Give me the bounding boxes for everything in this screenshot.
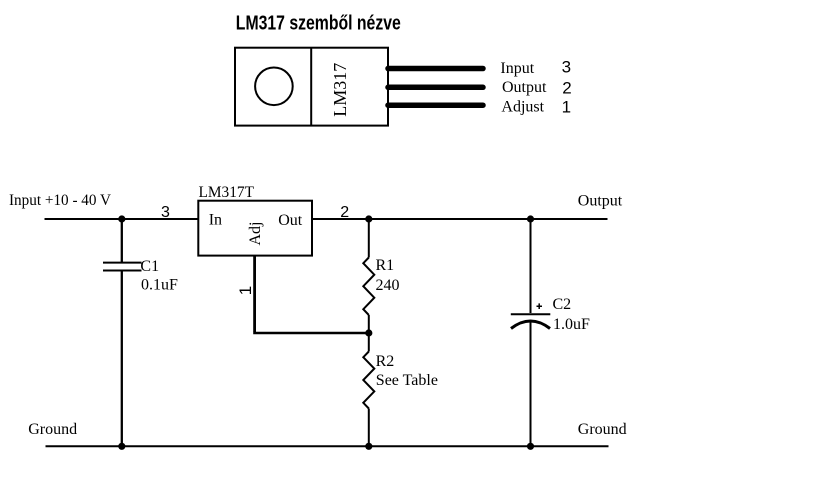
wire: C2 branch lower: [530, 322, 532, 447]
junction: output/C2 node: [527, 215, 534, 222]
svg-text:Out: Out: [278, 212, 303, 229]
wire: R1 to adj node: [368, 315, 370, 333]
wire: adjust pin vertical: [253, 256, 256, 332]
wire: C1 branch upper: [121, 219, 123, 263]
regulator U1 box: [198, 201, 312, 256]
pin 3 lead (Input): [388, 66, 483, 72]
wire: input to regulator (top left): [45, 218, 200, 220]
package tab divider line: [310, 48, 312, 126]
wire: R2 to ground: [368, 409, 370, 447]
IC package U1 body (TO-220 front view): [235, 48, 388, 126]
junction: C1/ground node: [118, 443, 125, 450]
capacitor C2 positive plate: [511, 313, 551, 315]
svg-text:In: In: [209, 212, 222, 229]
svg-text:Input +10 - 40 V: Input +10 - 40 V: [9, 192, 111, 209]
wire: adj node to R2: [368, 333, 370, 352]
wire: C1 branch lower: [121, 271, 123, 447]
wire: regulator output (top right): [312, 218, 608, 220]
wire: C2 branch upper: [530, 219, 532, 313]
junction: output/R1 node: [365, 215, 372, 222]
junction: R2/ground node: [365, 443, 372, 450]
wire: top node to R1: [368, 219, 370, 258]
svg-text:C1: C1: [140, 258, 159, 275]
svg-text:1: 1: [236, 286, 255, 295]
svg-text:Adj: Adj: [247, 222, 264, 246]
svg-text:Output: Output: [502, 79, 547, 96]
capacitor C1 bottom plate: [103, 270, 142, 272]
wire: ground rail: [46, 445, 609, 447]
svg-text:Ground: Ground: [28, 421, 77, 438]
package mounting hole: [255, 68, 293, 106]
svg-text:LM317: LM317: [330, 63, 350, 117]
capacitor C2 curved plate: [511, 321, 550, 329]
svg-text:1: 1: [562, 98, 571, 117]
svg-text:2: 2: [340, 204, 349, 221]
svg-text:Output: Output: [578, 193, 623, 210]
junction: C2/ground node: [527, 443, 534, 450]
svg-text:Adjust: Adjust: [501, 98, 544, 115]
resistor R1 zigzag: [363, 258, 374, 316]
svg-text:Input: Input: [500, 60, 534, 77]
svg-text:R1: R1: [376, 257, 395, 274]
svg-text:LM317 szemből nézve: LM317 szemből nézve: [236, 13, 401, 35]
svg-text:3: 3: [562, 58, 571, 77]
svg-text:Ground: Ground: [578, 421, 627, 438]
pin 2 lead (Output): [388, 85, 483, 91]
capacitor C1 top plate: [103, 262, 142, 264]
junction: input/C1 node: [118, 215, 125, 222]
pin 1 lead (Adjust): [388, 102, 483, 108]
svg-text:0.1uF: 0.1uF: [141, 277, 178, 294]
svg-text:3: 3: [161, 204, 170, 221]
svg-text:LM317T: LM317T: [199, 184, 255, 201]
junction: adj/R1/R2 node: [365, 329, 372, 336]
svg-text:1.0uF: 1.0uF: [553, 316, 590, 333]
wire: adjust pin horizontal to R1/R2 node: [253, 332, 369, 335]
svg-text:R2: R2: [376, 353, 395, 370]
svg-text:See Table: See Table: [376, 372, 438, 389]
C2 polarity plus sign: [537, 303, 543, 309]
svg-text:C2: C2: [553, 296, 572, 313]
svg-text:2: 2: [562, 79, 571, 98]
resistor R2 zigzag: [363, 352, 374, 409]
svg-text:240: 240: [376, 277, 400, 294]
